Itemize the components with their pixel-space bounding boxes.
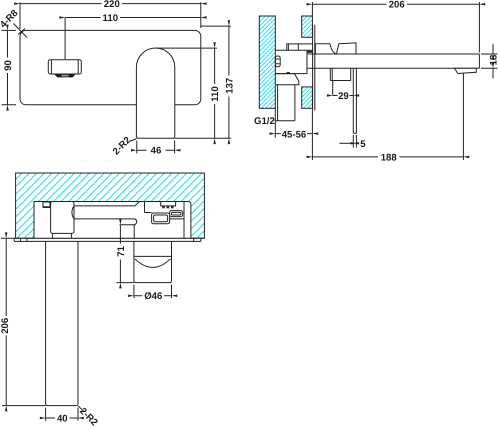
dimension 206 left xyxy=(1,238,46,405)
inlet pipe xyxy=(278,85,295,121)
dimension 45-56 xyxy=(275,108,312,160)
side port xyxy=(170,211,183,217)
dimension 40 xyxy=(46,408,78,421)
handle base dark xyxy=(54,74,75,77)
stream extension xyxy=(462,74,464,161)
lower block xyxy=(276,74,299,85)
dimension 46 xyxy=(137,141,175,154)
svg-text:110: 110 xyxy=(103,13,118,24)
dimension 5 xyxy=(353,135,356,148)
cartridge stem xyxy=(287,44,313,50)
svg-text:220: 220 xyxy=(104,0,120,10)
cartridge teeth xyxy=(161,202,176,206)
wall section top xyxy=(16,173,205,238)
svg-text:46: 46 xyxy=(151,146,162,157)
fixing tab xyxy=(43,202,57,208)
spout column top view xyxy=(46,241,78,405)
dimension 220 xyxy=(20,2,201,29)
svg-text:71: 71 xyxy=(116,245,127,256)
dimension 137 xyxy=(175,26,231,138)
svg-text:Ø46: Ø46 xyxy=(144,291,162,302)
spout cover front xyxy=(136,48,174,138)
finished wall lower xyxy=(302,87,313,108)
dimension diameter 46 xyxy=(134,285,172,298)
svg-text:188: 188 xyxy=(381,152,398,163)
temp probe tube xyxy=(353,68,356,133)
svg-text:137: 137 xyxy=(224,78,235,94)
dimension 110 right xyxy=(156,47,218,49)
svg-text:45-56: 45-56 xyxy=(282,129,307,140)
aerator xyxy=(455,68,477,73)
wall section left xyxy=(259,16,275,108)
dimension 90 xyxy=(2,30,17,104)
recess cavity xyxy=(34,201,191,238)
dimension 188 xyxy=(312,156,463,158)
wall plate xyxy=(20,30,201,104)
body-plate connector xyxy=(307,51,313,53)
spout side xyxy=(307,54,479,68)
dimension 18 xyxy=(481,54,498,68)
wall plate face xyxy=(313,25,315,111)
svg-text:G1/2: G1/2 xyxy=(254,116,275,127)
inlet nub xyxy=(275,56,280,67)
finished wall upper xyxy=(302,16,313,37)
dimension 206 side xyxy=(312,2,479,53)
connecting tube xyxy=(72,206,135,219)
valve body xyxy=(275,50,312,73)
svg-text:29: 29 xyxy=(338,91,349,102)
plate edge line xyxy=(14,238,201,241)
svg-text:5: 5 xyxy=(360,139,366,150)
svg-text:90: 90 xyxy=(3,60,14,71)
dimension 71 xyxy=(119,225,121,283)
wall face line xyxy=(16,237,205,239)
small tick under body xyxy=(287,72,291,74)
block under spout xyxy=(330,68,350,80)
handle front xyxy=(48,60,81,74)
spout elbow block xyxy=(51,202,74,234)
dimension 110 top xyxy=(64,18,66,60)
svg-text:18: 18 xyxy=(488,54,499,65)
svg-text:110: 110 xyxy=(210,86,221,101)
dimension 29 xyxy=(332,81,334,96)
handle edge lines xyxy=(51,60,78,74)
svg-text:206: 206 xyxy=(389,0,405,11)
svg-text:206: 206 xyxy=(0,318,11,334)
valve body top view xyxy=(120,202,185,239)
cartridge square xyxy=(152,213,170,224)
handle lever side xyxy=(315,43,356,54)
svg-text:40: 40 xyxy=(57,413,68,424)
handle column top view xyxy=(134,241,172,282)
